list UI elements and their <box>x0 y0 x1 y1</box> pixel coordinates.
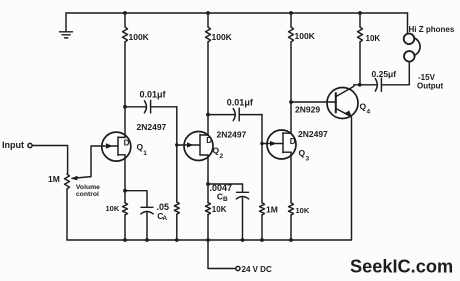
svg-text:100K: 100K <box>295 31 316 41</box>
svg-text:2N2497: 2N2497 <box>298 129 328 139</box>
svg-text:3: 3 <box>306 156 310 163</box>
svg-text:10K: 10K <box>366 34 381 43</box>
svg-text:10K: 10K <box>296 206 310 215</box>
svg-text:100K: 100K <box>212 32 233 42</box>
svg-text:10K: 10K <box>106 204 120 213</box>
svg-text:0.25μf: 0.25μf <box>372 69 397 79</box>
svg-text:4: 4 <box>367 109 371 116</box>
svg-text:Volume: Volume <box>76 184 100 191</box>
svg-text:Q: Q <box>299 148 306 158</box>
svg-text:A: A <box>162 215 167 222</box>
svg-text:Q: Q <box>213 146 220 156</box>
svg-text:Input: Input <box>2 140 24 150</box>
svg-text:D: D <box>290 137 296 146</box>
svg-text:2N2497: 2N2497 <box>217 130 247 140</box>
svg-text:Q: Q <box>360 102 367 112</box>
svg-text:D: D <box>206 136 212 145</box>
svg-text:1M: 1M <box>266 205 278 215</box>
svg-text:1M: 1M <box>48 174 60 184</box>
svg-text:Hi Z phones: Hi Z phones <box>409 25 455 34</box>
svg-text:1: 1 <box>143 150 147 157</box>
svg-text:24 V DC: 24 V DC <box>242 265 272 274</box>
svg-text:0.01μf: 0.01μf <box>227 98 254 108</box>
svg-text:2N2497: 2N2497 <box>137 122 167 132</box>
svg-text:2N929: 2N929 <box>295 105 320 115</box>
svg-text:control: control <box>76 191 99 198</box>
svg-text:B: B <box>223 196 228 203</box>
svg-text:100K: 100K <box>129 32 150 42</box>
svg-text:Output: Output <box>417 82 444 91</box>
svg-text:2: 2 <box>220 153 224 160</box>
svg-text:10K: 10K <box>212 205 227 214</box>
svg-text:0.01μf: 0.01μf <box>140 90 167 100</box>
svg-text:SeekIC.com: SeekIC.com <box>350 256 453 276</box>
svg-text:D: D <box>124 138 130 147</box>
